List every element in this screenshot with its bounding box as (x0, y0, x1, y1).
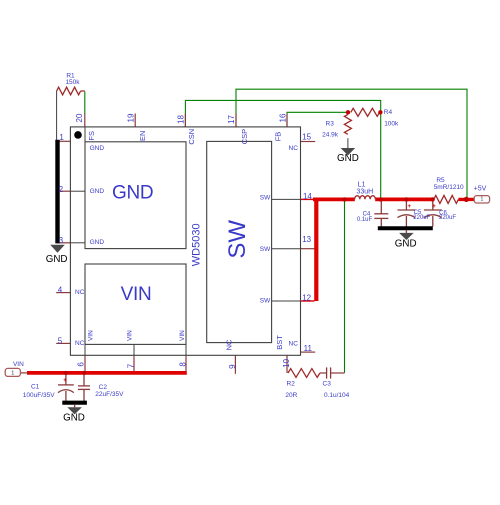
svg-text:VIN: VIN (121, 284, 152, 305)
svg-text:220uF: 220uF (413, 215, 430, 221)
svg-text:0.1uF: 0.1uF (357, 217, 373, 223)
svg-text:R4: R4 (384, 109, 393, 116)
svg-text:220uF: 220uF (439, 215, 456, 221)
svg-text:17: 17 (227, 115, 236, 124)
svg-text:12: 12 (302, 294, 311, 303)
svg-text:22uF/35V: 22uF/35V (95, 391, 124, 398)
svg-text:33uH: 33uH (356, 189, 373, 196)
svg-text:NC: NC (75, 340, 85, 347)
svg-text:4: 4 (58, 286, 63, 295)
svg-text:18: 18 (176, 115, 185, 124)
svg-text:1: 1 (11, 370, 14, 376)
svg-text:BST: BST (275, 335, 284, 350)
svg-text:GND: GND (63, 412, 85, 423)
svg-text:24.9k: 24.9k (322, 131, 339, 138)
svg-text:SW: SW (260, 246, 271, 253)
svg-text:EN: EN (138, 131, 147, 141)
svg-text:VIN: VIN (126, 330, 133, 341)
svg-text:FB: FB (274, 132, 283, 142)
svg-text:C1: C1 (31, 383, 40, 390)
svg-text:WD5030: WD5030 (190, 223, 202, 266)
svg-text:R3: R3 (326, 121, 335, 128)
svg-text:15: 15 (302, 132, 311, 141)
svg-text:9: 9 (228, 364, 237, 369)
svg-text:20R: 20R (285, 392, 297, 399)
svg-text:GND: GND (112, 183, 153, 204)
svg-text:CSN: CSN (187, 129, 196, 145)
svg-text:C3: C3 (323, 381, 332, 388)
svg-text:GND: GND (46, 254, 68, 265)
svg-text:NC: NC (75, 289, 85, 296)
svg-text:GND: GND (90, 239, 105, 246)
svg-text:+: + (432, 204, 436, 210)
svg-text:150k: 150k (65, 79, 80, 86)
svg-text:0.1u/104: 0.1u/104 (324, 392, 350, 399)
svg-text:VIN: VIN (179, 330, 186, 341)
svg-text:14: 14 (303, 192, 312, 201)
svg-text:1: 1 (59, 133, 64, 142)
svg-text:SW: SW (224, 220, 251, 259)
svg-text:GND: GND (337, 153, 359, 164)
svg-text:5mR/1210: 5mR/1210 (434, 184, 464, 191)
svg-text:SW: SW (260, 298, 271, 305)
svg-text:1: 1 (480, 197, 483, 203)
svg-text:GND: GND (395, 238, 417, 249)
svg-text:+: + (407, 204, 411, 210)
svg-text:L1: L1 (358, 181, 366, 188)
svg-text:3: 3 (59, 236, 64, 245)
svg-text:20: 20 (75, 113, 84, 122)
svg-text:GND: GND (90, 188, 105, 195)
svg-text:VIN: VIN (88, 330, 95, 341)
svg-text:R2: R2 (287, 381, 296, 388)
svg-text:NC: NC (224, 339, 233, 350)
svg-text:11: 11 (304, 344, 313, 353)
svg-text:5: 5 (58, 337, 63, 346)
svg-text:NC: NC (289, 145, 299, 152)
svg-text:19: 19 (127, 113, 136, 122)
svg-text:2: 2 (59, 185, 64, 194)
svg-text:GND: GND (90, 145, 105, 152)
svg-text:VIN: VIN (13, 361, 24, 368)
svg-text:100uF/35V: 100uF/35V (23, 392, 55, 399)
svg-text:100k: 100k (384, 121, 399, 128)
svg-text:+5V: +5V (474, 186, 487, 193)
svg-text:SW: SW (260, 194, 271, 201)
svg-text:8: 8 (178, 362, 187, 367)
svg-text:+: + (63, 378, 67, 384)
svg-text:6: 6 (76, 362, 85, 367)
svg-text:16: 16 (279, 113, 288, 122)
svg-text:7: 7 (127, 363, 136, 368)
svg-text:13: 13 (302, 235, 311, 244)
svg-text:CSP: CSP (240, 129, 249, 144)
svg-text:10: 10 (282, 358, 291, 367)
svg-text:NC: NC (289, 340, 299, 347)
svg-text:FS: FS (87, 131, 96, 141)
